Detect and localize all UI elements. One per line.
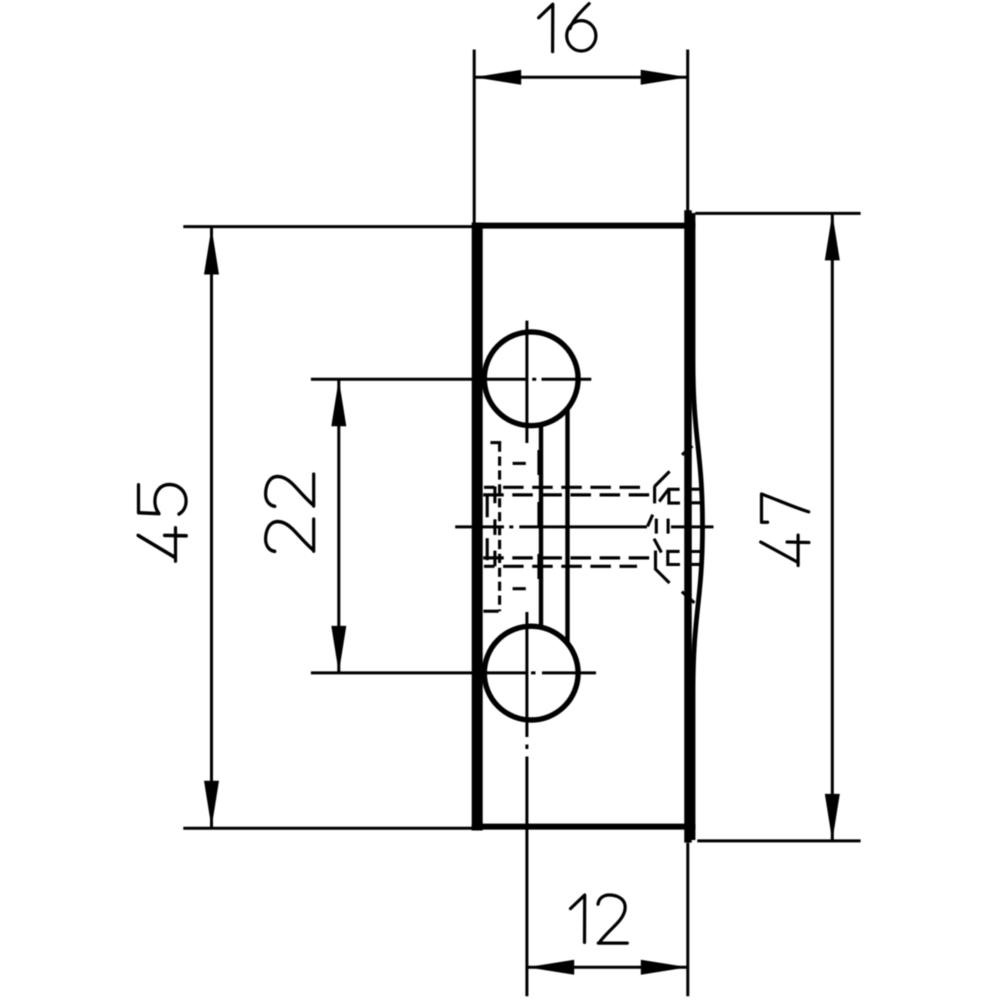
- spring hook tick upper: [682, 446, 692, 455]
- thread cross tick upper: [493, 487, 496, 504]
- body outline bottom edge: [472, 824, 696, 830]
- thread cross tick middle: [493, 519, 496, 535]
- hidden slot rectangle vertical dashed line: [498, 443, 501, 612]
- hidden thread line lower outer: [484, 565, 637, 568]
- countersink upper bracket: [669, 489, 680, 503]
- hidden dash below top hole: [513, 462, 526, 465]
- countersink lower outer diagonal: [655, 568, 670, 583]
- dim 45 arrow bottom: [204, 781, 219, 828]
- thread chamfer vertical upper: [486, 495, 489, 517]
- dim 45 dimension line: [210, 228, 213, 828]
- dim text 16 digit 6: [567, 4, 596, 51]
- dim text 47 digit 7: [762, 494, 809, 522]
- dim 45 extension line top: [183, 225, 480, 228]
- dim text 16 digit 1: [539, 4, 553, 51]
- hidden thread line upper inner: [483, 493, 652, 496]
- body outline left edge: [472, 223, 483, 831]
- dim 47 arrow top: [825, 213, 840, 260]
- dim 12 arrow left: [527, 960, 574, 975]
- vertical centerline through holes lower segment: [525, 612, 528, 737]
- countersink lower right tick a: [686, 550, 704, 553]
- body outline top edge: [472, 223, 696, 229]
- countersink lower right tick b: [686, 563, 704, 566]
- thread cross tick lower: [493, 551, 496, 567]
- hidden thread line upper outer: [484, 486, 642, 489]
- vertical centerline through holes upper segment: [525, 321, 528, 443]
- dim 16 arrow right: [641, 70, 688, 85]
- spring leaf bow curve: [693, 213, 703, 840]
- hidden thread line lower inner: [483, 556, 651, 559]
- vertical centerline dot: [525, 745, 528, 750]
- dim 47 dimension line: [831, 213, 834, 841]
- dim 12 extension line right: [686, 843, 689, 997]
- main horizontal centerline left dash: [455, 525, 504, 528]
- dim 22 dimension line: [337, 379, 340, 673]
- slot edge line right: [565, 409, 569, 644]
- thread chamfer vertical lower: [486, 538, 489, 560]
- hidden slot rectangle top corner dash: [490, 441, 501, 444]
- countersink upper outer diagonal: [654, 471, 669, 486]
- slot edge line left: [539, 425, 543, 627]
- slot hidden dashed overlay: [537, 450, 541, 602]
- vertical centerline lower extension (dim 12 left extension): [525, 757, 528, 997]
- dim 22 arrow top: [331, 379, 346, 426]
- spring hook tick lower: [682, 592, 695, 603]
- countersink center diagonal b: [654, 539, 661, 553]
- main horizontal centerline dot: [509, 525, 513, 528]
- dim text 22 digit 2 first: [266, 519, 314, 551]
- dim 22 extension line bottom (bottom hole centerline): [311, 671, 596, 674]
- dim 45 extension line bottom: [183, 827, 480, 830]
- dim 12 arrow right: [641, 960, 688, 975]
- dim text 22 digit 2 second: [266, 474, 314, 506]
- body outline right edge (back face): [684, 210, 692, 842]
- dim 16 extension line right: [686, 50, 689, 211]
- dim text 45 digit 4: [138, 528, 186, 561]
- dim 47 extension line top: [695, 212, 860, 215]
- dim text 12 digit 1: [571, 895, 585, 942]
- hole bottom circle: [484, 626, 578, 720]
- hidden slot rectangle bottom corner dash: [483, 610, 498, 613]
- dim 16 extension line left: [473, 50, 476, 224]
- main horizontal centerline right dash: [671, 525, 714, 528]
- dim 45 arrow top: [204, 228, 219, 275]
- countersink center diagonal a: [648, 515, 653, 527]
- dim 16 dimension line: [474, 76, 688, 79]
- dim 47 extension line bottom: [697, 839, 860, 842]
- dim 22 extension line top (top hole centerline): [311, 378, 591, 381]
- countersink upper vertical tick: [653, 486, 656, 503]
- dim text 47 digit 4: [761, 535, 809, 565]
- dim text 45 digit 5: [139, 485, 187, 515]
- countersink lower vertical tick: [654, 551, 657, 569]
- countersink upper inner diagonal: [659, 489, 668, 501]
- dim 22 arrow bottom: [331, 626, 346, 673]
- countersink upper right tick b: [686, 501, 704, 504]
- countersink lower bracket: [668, 551, 680, 564]
- countersink upper right tick a: [686, 488, 704, 491]
- hidden dash above bottom hole: [513, 587, 526, 590]
- dim 47 arrow bottom: [825, 794, 840, 841]
- hole top circle: [484, 332, 578, 426]
- countersink center vertical tick b: [667, 519, 670, 534]
- dim 16 arrow left: [474, 70, 521, 85]
- countersink center vertical tick a: [655, 519, 658, 534]
- main horizontal centerline middle dash: [519, 525, 647, 528]
- dim text 12 digit 2: [598, 895, 627, 943]
- dim 12 dimension line: [527, 966, 688, 969]
